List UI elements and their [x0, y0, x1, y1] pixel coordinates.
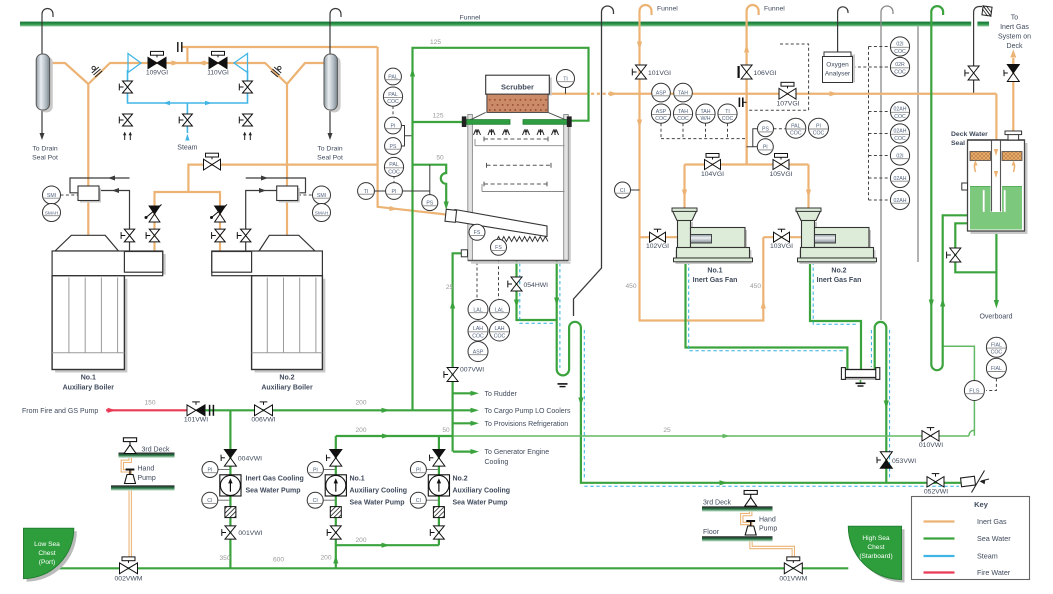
svg-text:Funnel: Funnel [657, 6, 678, 13]
svg-text:Sea Water: Sea Water [977, 534, 1011, 543]
svg-text:105VGI: 105VGI [769, 171, 792, 178]
svg-text:COC: COC [894, 69, 906, 75]
svg-text:(Starboard): (Starboard) [859, 553, 892, 560]
svg-text:Deck: Deck [1007, 43, 1023, 50]
svg-text:007VWI: 007VWI [460, 367, 484, 374]
svg-text:To Generator Engine: To Generator Engine [485, 449, 550, 456]
svg-text:200: 200 [355, 427, 366, 434]
svg-text:PAL: PAL [791, 123, 801, 129]
svg-text:COC: COC [813, 131, 825, 137]
svg-text:125: 125 [430, 39, 441, 46]
svg-text:PAL: PAL [389, 162, 399, 168]
svg-text:Sea Water Pump: Sea Water Pump [350, 500, 405, 507]
svg-text:SMI: SMI [317, 193, 326, 199]
svg-text:No.2: No.2 [831, 268, 846, 275]
svg-text:Auxiliary Cooling: Auxiliary Cooling [350, 488, 408, 495]
svg-text:02I: 02I [896, 153, 903, 159]
svg-text:COC: COC [894, 114, 906, 120]
svg-text:ASP: ASP [473, 349, 484, 355]
svg-text:150: 150 [144, 400, 155, 407]
svg-text:FIAL: FIAL [991, 343, 1002, 349]
svg-text:600: 600 [273, 557, 284, 564]
svg-text:PS: PS [762, 127, 769, 133]
svg-text:350: 350 [219, 555, 230, 562]
svg-text:Overboard: Overboard [979, 314, 1012, 321]
svg-text:COC: COC [894, 49, 906, 55]
svg-text:Seal Pot: Seal Pot [317, 155, 343, 162]
svg-text:PI: PI [416, 467, 421, 473]
svg-text:3rd Deck: 3rd Deck [703, 499, 732, 506]
svg-text:Steam: Steam [977, 552, 998, 561]
svg-text:02AH: 02AH [894, 129, 907, 135]
svg-text:PI: PI [392, 189, 397, 195]
svg-text:25: 25 [446, 284, 454, 291]
svg-text:Seal: Seal [951, 140, 965, 147]
svg-text:CI: CI [313, 498, 318, 504]
svg-text:No.2: No.2 [279, 375, 294, 382]
svg-text:Fire Water: Fire Water [977, 568, 1011, 577]
svg-text:200: 200 [355, 537, 366, 544]
svg-text:LAL: LAL [495, 307, 504, 313]
svg-text:3rd Deck: 3rd Deck [142, 446, 171, 453]
svg-text:High Sea: High Sea [862, 535, 889, 542]
svg-text:No.1: No.1 [81, 375, 96, 382]
svg-text:Inert Gas: Inert Gas [977, 517, 1007, 526]
svg-text:052VWI: 052VWI [924, 489, 948, 496]
svg-text:Floor: Floor [703, 529, 720, 536]
svg-text:PAL: PAL [388, 74, 398, 80]
svg-text:PI: PI [763, 145, 768, 151]
svg-text:02AH: 02AH [894, 107, 907, 113]
svg-text:001VWI: 001VWI [238, 530, 262, 537]
svg-text:Inert Gas: Inert Gas [1000, 24, 1029, 31]
svg-text:Analyser: Analyser [825, 71, 851, 78]
svg-text:Funnel: Funnel [764, 6, 785, 13]
svg-text:102VGI: 102VGI [646, 243, 669, 250]
svg-text:LAH: LAH [473, 326, 483, 332]
svg-text:COC: COC [388, 169, 400, 175]
svg-text:104VGI: 104VGI [701, 171, 724, 178]
svg-text:W/H: W/H [700, 116, 710, 122]
svg-text:Auxiliary Cooling: Auxiliary Cooling [453, 488, 511, 495]
svg-text:Oxygen: Oxygen [826, 62, 849, 69]
svg-text:50: 50 [436, 155, 444, 162]
svg-text:Sea Water Pump: Sea Water Pump [246, 488, 301, 495]
svg-text:To Cargo Pump LO Coolers: To Cargo Pump LO Coolers [485, 408, 571, 415]
svg-text:SMAH: SMAH [315, 210, 329, 215]
svg-text:FS: FS [474, 230, 481, 236]
svg-text:PI: PI [208, 467, 213, 473]
svg-text:107VGI: 107VGI [776, 101, 799, 108]
svg-text:Auxiliary Boiler: Auxiliary Boiler [261, 385, 313, 392]
svg-text:001VWM: 001VWM [779, 576, 807, 583]
svg-text:TAH: TAH [678, 91, 688, 97]
svg-text:106VGI: 106VGI [754, 70, 777, 77]
svg-text:02R: 02R [895, 62, 905, 68]
svg-text:To Rudder: To Rudder [485, 391, 518, 398]
svg-text:COC: COC [387, 99, 399, 105]
svg-text:No.2: No.2 [453, 476, 468, 483]
svg-text:PI: PI [816, 123, 821, 129]
svg-text:SMAH: SMAH [45, 210, 59, 215]
svg-text:Hand: Hand [138, 466, 155, 473]
svg-text:ASP: ASP [656, 91, 667, 97]
svg-text:PI: PI [313, 467, 318, 473]
svg-text:TI: TI [563, 76, 568, 82]
svg-text:Key: Key [974, 500, 989, 509]
svg-text:COC: COC [790, 131, 802, 137]
svg-text:Seal Pot: Seal Pot [32, 155, 58, 162]
svg-text:053VWI: 053VWI [892, 458, 916, 465]
svg-text:TI: TI [364, 189, 369, 195]
svg-text:Sea Water Pump: Sea Water Pump [453, 500, 508, 507]
svg-text:TI: TI [725, 109, 730, 115]
svg-text:110VGI: 110VGI [207, 70, 229, 77]
svg-text:COC: COC [655, 116, 667, 122]
svg-text:Funnel: Funnel [460, 15, 481, 22]
svg-text:02AH: 02AH [894, 176, 907, 182]
svg-text:No.1: No.1 [707, 268, 722, 275]
svg-text:(Port): (Port) [39, 559, 55, 566]
svg-text:System on: System on [998, 34, 1031, 41]
svg-text:COC: COC [494, 333, 506, 339]
svg-text:02AH: 02AH [894, 198, 907, 204]
svg-text:200: 200 [355, 400, 366, 407]
svg-text:To: To [1011, 15, 1019, 22]
svg-text:TAH: TAH [678, 109, 688, 115]
svg-text:LAH: LAH [494, 326, 504, 332]
svg-text:FLS: FLS [969, 388, 980, 394]
svg-text:CI: CI [207, 498, 212, 504]
svg-text:101VGI: 101VGI [648, 70, 671, 77]
svg-text:To Drain: To Drain [317, 146, 343, 153]
svg-text:Inert Gas Fan: Inert Gas Fan [817, 277, 862, 284]
svg-text:To Provisions Refrigeration: To Provisions Refrigeration [485, 421, 569, 428]
svg-text:CI: CI [620, 188, 625, 194]
svg-text:TAH: TAH [701, 109, 711, 115]
svg-text:50: 50 [442, 427, 450, 434]
svg-text:COC: COC [472, 333, 484, 339]
svg-text:25: 25 [663, 427, 671, 434]
svg-text:FIAL: FIAL [991, 366, 1002, 372]
svg-text:Steam: Steam [177, 144, 197, 151]
svg-text:109VGI: 109VGI [146, 70, 168, 77]
svg-text:006VWI: 006VWI [251, 417, 275, 424]
svg-text:125: 125 [432, 113, 443, 120]
svg-text:CI: CI [416, 498, 421, 504]
svg-text:PAL: PAL [388, 92, 398, 98]
svg-text:450: 450 [625, 283, 636, 290]
svg-text:From Fire and GS Pump: From Fire and GS Pump [22, 408, 98, 415]
svg-text:No.1: No.1 [350, 476, 365, 483]
svg-text:PS: PS [390, 144, 397, 150]
svg-text:FS: FS [495, 245, 502, 251]
svg-text:010VWI: 010VWI [919, 442, 943, 449]
svg-text:COC: COC [894, 136, 906, 142]
svg-text:103VGI: 103VGI [770, 243, 793, 250]
svg-text:Hand: Hand [759, 517, 776, 524]
svg-text:Inert Gas Cooling: Inert Gas Cooling [246, 476, 304, 483]
svg-text:Deck Water: Deck Water [951, 131, 988, 138]
svg-text:004VWI: 004VWI [238, 456, 262, 463]
svg-text:To Drain: To Drain [32, 146, 58, 153]
svg-text:Pump: Pump [759, 526, 777, 533]
svg-text:Chest: Chest [867, 544, 884, 551]
svg-text:Scrubber: Scrubber [501, 83, 534, 92]
svg-text:Auxiliary Boiler: Auxiliary Boiler [63, 385, 115, 392]
svg-text:LAL: LAL [473, 307, 482, 313]
svg-text:Chest: Chest [38, 550, 55, 557]
svg-text:PS: PS [426, 201, 433, 207]
svg-text:Inert Gas Fan: Inert Gas Fan [693, 277, 738, 284]
svg-text:COC: COC [991, 350, 1003, 356]
svg-text:ASP: ASP [656, 109, 667, 115]
svg-text:02I: 02I [896, 42, 903, 48]
svg-text:Low Sea: Low Sea [34, 541, 60, 548]
svg-text:101VWI: 101VWI [184, 417, 208, 424]
svg-text:054HWI: 054HWI [524, 282, 549, 289]
svg-text:PI: PI [391, 123, 396, 129]
svg-text:Cooling: Cooling [485, 459, 509, 466]
svg-text:SMI: SMI [47, 193, 56, 199]
svg-text:COC: COC [677, 116, 689, 122]
svg-text:Pump: Pump [138, 475, 156, 482]
svg-text:200: 200 [320, 555, 331, 562]
svg-text:002VWM: 002VWM [115, 576, 143, 583]
svg-text:COC: COC [722, 116, 734, 122]
svg-text:450: 450 [750, 283, 761, 290]
